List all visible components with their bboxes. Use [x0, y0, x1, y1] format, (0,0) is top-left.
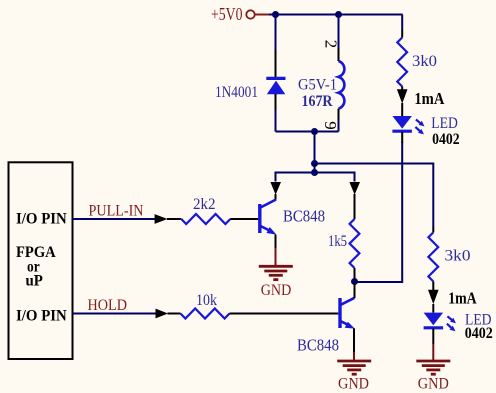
svg-text:I/O PIN: I/O PIN [16, 211, 67, 228]
wire 1k5 to node B [354, 268, 356, 282]
wire Q1 emitter to ground [275, 235, 277, 267]
wire Q2 collector pin [354, 282, 356, 299]
svg-text:1N4001: 1N4001 [215, 84, 258, 101]
wire relay bottom rail [276, 131, 339, 133]
wire node B to LED1 column [355, 142, 403, 282]
arrow current 1mA lower [428, 290, 439, 304]
svg-text:9: 9 [321, 121, 340, 130]
diode D1 [266, 78, 285, 94]
ground GND2 [337, 361, 371, 374]
svg-text:0402: 0402 [465, 325, 493, 342]
transistor Q2 [340, 298, 355, 329]
transistor Q1 [260, 200, 277, 235]
power terminal +5V0 [211, 4, 269, 24]
wire diode column upper [275, 15, 277, 79]
wire arrow to 10k [168, 313, 181, 315]
LED D3 [424, 313, 456, 332]
wire top +5V rail [269, 14, 403, 16]
svg-text:I/O PIN: I/O PIN [16, 308, 67, 325]
wire 1k5 top pin [354, 194, 356, 219]
svg-text:GND: GND [338, 376, 369, 393]
svg-text:167R: 167R [302, 93, 334, 110]
wire PULL-IN net [72, 218, 156, 220]
svg-text:GND: GND [418, 376, 449, 393]
junction node A lower [311, 169, 318, 176]
wire 3k0 lower top pin [432, 227, 434, 232]
junction relay bottom [311, 128, 318, 135]
wire 3k0 to arrow upper [401, 87, 403, 91]
ground GND3 [416, 361, 450, 374]
svg-text:2k2: 2k2 [193, 196, 216, 213]
svg-text:+5V0: +5V0 [211, 4, 243, 24]
svg-text:uP: uP [26, 273, 44, 290]
wire 10k to Q2 base [230, 313, 339, 315]
wire LED1 bottom pin [401, 132, 403, 143]
wire LED2 to ground [432, 329, 434, 361]
arrow current into 1k5 [349, 182, 360, 195]
junction diode top [272, 11, 279, 18]
svg-text:0402: 0402 [432, 131, 460, 148]
arrow HOLD direction [156, 309, 169, 319]
wire 2k2 to Q1 base [230, 218, 258, 220]
junction coil top [335, 11, 342, 18]
wire HOLD net [72, 313, 156, 315]
wire arrow to LED1 [401, 103, 403, 116]
resistor R5 [428, 232, 438, 281]
wire middle vertical [314, 132, 316, 173]
arrow current 1mA upper [397, 89, 408, 103]
wire top rail to 3k0 upper [401, 15, 403, 38]
resistor R1 [181, 214, 230, 224]
arrow PULL-IN direction [155, 214, 168, 224]
svg-text:PULL-IN: PULL-IN [89, 203, 144, 220]
ground GND1 [259, 266, 293, 279]
wire Q1 collector pin [275, 194, 277, 200]
relay coil K1 [339, 61, 345, 109]
svg-text:1mA: 1mA [414, 89, 445, 108]
resistor R4 [397, 38, 407, 87]
svg-text:3k0: 3k0 [445, 248, 471, 265]
resistor R2 [181, 309, 230, 319]
svg-text:BC848: BC848 [297, 336, 339, 355]
wire diode column lower [275, 94, 277, 132]
junction node A upper [311, 160, 318, 167]
LED D2 [392, 116, 424, 134]
wire arrow to LED2 [432, 304, 434, 313]
svg-text:GND: GND [261, 282, 292, 299]
svg-text:HOLD: HOLD [88, 297, 128, 314]
wire Q2 emitter to ground [353, 328, 355, 361]
svg-text:2: 2 [322, 40, 341, 49]
wire node A to LED2 branch [315, 164, 434, 228]
wire 3k0 to arrow lower [432, 281, 434, 290]
resistor R3 [350, 219, 360, 268]
wire coil column upper [338, 15, 340, 62]
arrow current into Q1 collector [270, 182, 281, 195]
junction node B [351, 278, 358, 285]
svg-text:3k0: 3k0 [412, 53, 437, 70]
svg-text:BC848: BC848 [283, 207, 325, 226]
svg-text:1k5: 1k5 [328, 233, 347, 250]
svg-text:G5V-1: G5V-1 [298, 77, 337, 94]
wire coil column lower [338, 109, 340, 132]
FPGA box [9, 162, 73, 359]
svg-text:10k: 10k [196, 292, 217, 309]
svg-text:LED: LED [431, 115, 458, 132]
wire arrow to 2k2 [167, 218, 181, 220]
wire node A rail to Q1 and 1k5 [276, 173, 355, 182]
svg-text:1mA: 1mA [448, 289, 477, 308]
